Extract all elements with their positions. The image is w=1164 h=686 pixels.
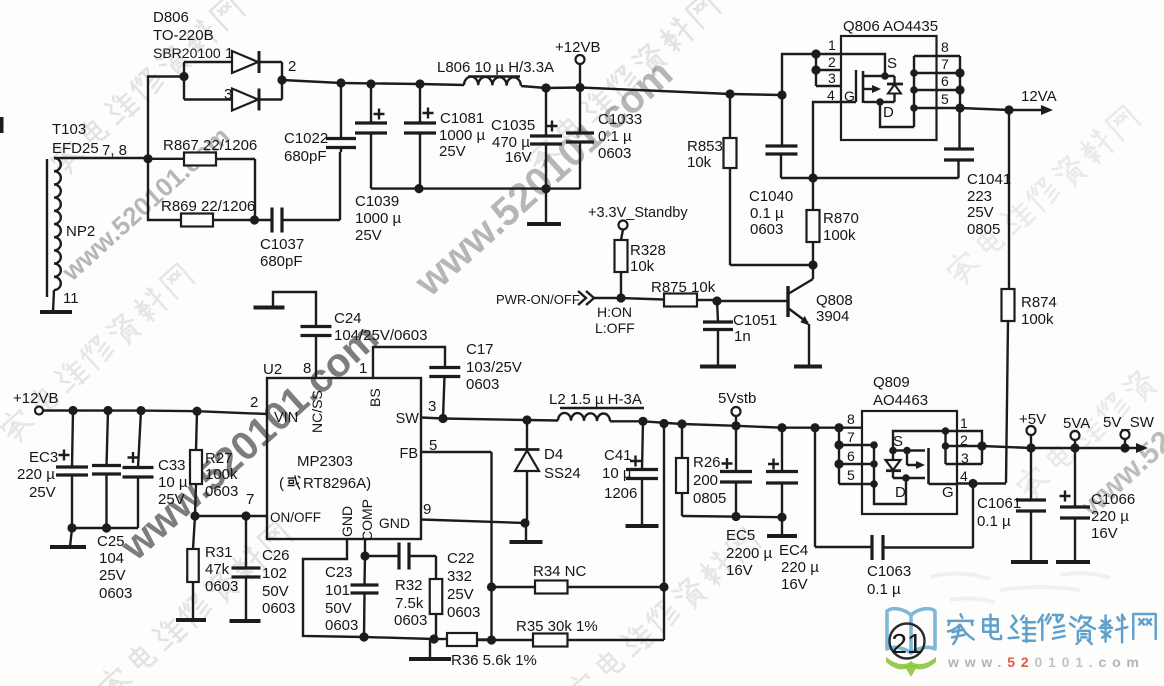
svg-text:0805: 0805: [693, 490, 726, 507]
scan smudges: [930, 573, 1110, 602]
svg-text:1206: 1206: [604, 485, 637, 502]
svg-text:5V_SW: 5V_SW: [1103, 414, 1155, 431]
svg-text:R867 22/1206: R867 22/1206: [163, 137, 257, 154]
svg-text:680pF: 680pF: [260, 253, 303, 270]
svg-text:2: 2: [250, 394, 258, 411]
svg-text:220 µ: 220 µ: [1091, 508, 1129, 525]
wire: winding top to input node: [54, 157, 148, 159]
wire: 12VA output: [960, 108, 1041, 110]
svg-text:25V: 25V: [29, 484, 56, 501]
svg-text:L:OFF: L:OFF: [595, 320, 635, 336]
svg-text:223: 223: [967, 188, 992, 205]
capacitor C41: [638, 417, 647, 426]
transformer T103 core: [46, 159, 48, 297]
svg-text:U2: U2: [263, 361, 282, 378]
logo: blue site name 家电维修资料网: [948, 614, 1156, 644]
svg-text:EC3: EC3: [29, 449, 58, 466]
svg-text:C1040: C1040: [749, 188, 793, 205]
ground (D4 / pin9): [510, 540, 543, 544]
svg-text:0.1 µ: 0.1 µ: [750, 205, 784, 222]
svg-text:10k: 10k: [687, 154, 712, 171]
svg-text:332: 332: [447, 568, 472, 585]
wire: input cap ground rail: [72, 527, 138, 529]
ground (EC rail): [767, 534, 797, 538]
edge artifact: [0, 117, 4, 133]
svg-text:D: D: [895, 484, 906, 501]
svg-text:3904: 3904: [816, 308, 849, 325]
svg-text:R853: R853: [687, 138, 723, 155]
Q806 body diode: [885, 76, 895, 84]
svg-text:7, 8: 7, 8: [102, 142, 127, 159]
svg-text:25V: 25V: [447, 586, 474, 603]
resistor R32: [430, 579, 443, 614]
svg-text:220 µ: 220 µ: [781, 559, 819, 576]
svg-text:C1022: C1022: [284, 130, 328, 147]
capacitor C25: [103, 406, 112, 415]
ground (filter rail): [545, 189, 547, 224]
svg-text:MP2303: MP2303: [297, 453, 353, 470]
Q809 internal source/drain bus: [874, 445, 906, 504]
svg-text:3: 3: [828, 70, 836, 86]
svg-text:(: (: [279, 475, 284, 492]
svg-text:0603: 0603: [262, 600, 295, 617]
ground (C26): [230, 619, 261, 623]
svg-text:R870: R870: [823, 210, 859, 227]
wire: node up to diode split: [148, 77, 184, 159]
svg-text:GND: GND: [379, 515, 410, 531]
capacitor EC4: [777, 423, 786, 432]
svg-text:C22: C22: [447, 550, 475, 567]
resistor R36: [434, 638, 447, 640]
svg-text:50V: 50V: [262, 583, 289, 600]
svg-text:EFD25: EFD25: [52, 140, 99, 157]
resistor R867: [148, 159, 255, 220]
node: snubber input junction: [143, 154, 152, 163]
svg-text:H:ON: H:ON: [597, 304, 632, 320]
svg-text:Q808: Q808: [816, 292, 853, 309]
wire: Q806 left pin bus: [815, 54, 817, 86]
svg-text:1n: 1n: [734, 328, 751, 345]
diode D806-3: [184, 98, 232, 100]
ground (C1051): [700, 365, 736, 369]
svg-text:12VA: 12VA: [1021, 88, 1057, 105]
capacitor C1037: [255, 219, 273, 221]
capacitor C1041: [959, 108, 960, 178]
watermark tiles: [47, 0, 246, 177]
resistor R875: [621, 298, 717, 300]
wire: Q806 gate row: [781, 177, 959, 179]
wire: COMP pin: [364, 539, 366, 556]
svg-text:6: 6: [941, 73, 949, 89]
svg-text:Q809: Q809: [873, 374, 910, 391]
svg-text:50V: 50V: [325, 600, 352, 617]
svg-text:25V: 25V: [158, 491, 185, 508]
svg-text:0603: 0603: [598, 145, 631, 162]
svg-text:4: 4: [960, 468, 968, 484]
inductor L806: [464, 77, 521, 86]
svg-text:0.1 µ: 0.1 µ: [977, 513, 1011, 530]
svg-text:100k: 100k: [823, 227, 856, 244]
svg-text:0603: 0603: [750, 221, 783, 238]
svg-text:0603: 0603: [394, 612, 427, 629]
svg-text:2: 2: [288, 58, 296, 75]
svg-text:7.5k: 7.5k: [395, 595, 424, 612]
capacitor EC5: [731, 421, 740, 430]
svg-text:R31: R31: [205, 544, 233, 561]
svg-text:C1035: C1035: [491, 117, 535, 134]
transistor Q808: [717, 300, 788, 302]
Q806 internal drain bus: [880, 56, 960, 127]
capacitor C1033: [575, 83, 584, 92]
svg-text:1: 1: [960, 415, 968, 431]
svg-text:10 µ: 10 µ: [602, 465, 632, 482]
wire: feed from +12VB bus to Q806 pins 1-3: [777, 90, 786, 99]
resistor R328: [621, 230, 623, 299]
svg-text:0603: 0603: [205, 578, 238, 595]
IC U2 MP2303 box: [267, 378, 421, 539]
svg-text:6: 6: [847, 448, 855, 464]
logo: circled 21: [890, 624, 925, 659]
svg-text:C24: C24: [334, 310, 362, 327]
svg-text:GND: GND: [339, 506, 355, 537]
svg-text:NP2: NP2: [66, 223, 95, 240]
svg-text:0603: 0603: [205, 483, 238, 500]
Q806 right stubs and bus: [914, 56, 960, 108]
ground (T103 pin 11): [40, 310, 72, 314]
svg-text:16V: 16V: [1091, 525, 1118, 542]
wire: Q809 left pin bus: [838, 428, 840, 484]
svg-text:1: 1: [359, 360, 367, 377]
svg-text:C1066: C1066: [1091, 491, 1135, 508]
capacitor C33: [136, 406, 145, 415]
wire: U2 GND pin9 row: [421, 520, 525, 524]
svg-text:+3.3V_Standby: +3.3V_Standby: [588, 205, 688, 221]
svg-text:9: 9: [423, 501, 431, 518]
Q809 body diode: [892, 451, 894, 461]
wire: +12VB to VIN: [44, 411, 268, 415]
svg-text:100k: 100k: [1021, 311, 1054, 328]
svg-text:R328: R328: [630, 242, 666, 259]
svg-text:5VA: 5VA: [1063, 415, 1090, 432]
svg-text:D: D: [883, 104, 894, 121]
node 2 : rectifier output: [281, 62, 283, 100]
svg-text:21: 21: [891, 628, 922, 659]
svg-text:EC4: EC4: [779, 542, 808, 559]
ground (input caps): [70, 528, 72, 547]
svg-text:7: 7: [246, 491, 254, 508]
resistor R870: [812, 178, 814, 265]
capacitor C1081: [415, 79, 424, 88]
svg-text:0.1 µ: 0.1 µ: [867, 581, 901, 598]
svg-text:C1041: C1041: [967, 171, 1011, 188]
svg-text:SBR20100: SBR20100: [153, 45, 221, 61]
svg-text:C1063: C1063: [867, 563, 911, 580]
svg-text:C1081: C1081: [440, 110, 484, 127]
logo: green ribbon: [886, 657, 936, 669]
resistor R35: [487, 635, 496, 644]
svg-text:AO4463: AO4463: [873, 392, 928, 409]
svg-text:1000 µ: 1000 µ: [355, 210, 402, 227]
svg-text:EC5: EC5: [726, 527, 755, 544]
capacitor C26: [245, 516, 247, 621]
svg-text:2200 µ: 2200 µ: [726, 545, 773, 562]
svg-text:100k: 100k: [205, 466, 238, 483]
svg-text:R875 10k: R875 10k: [651, 279, 716, 296]
svg-text:COMP: COMP: [359, 499, 375, 541]
capacitor C1066: [1074, 448, 1076, 562]
wire: GND pin bottom loop: [303, 539, 434, 639]
inductor L2: [558, 413, 610, 421]
svg-text:+12VB: +12VB: [13, 390, 58, 407]
svg-text:25V: 25V: [99, 567, 126, 584]
capacitor C23: [364, 556, 365, 637]
capacitor C24: [273, 292, 316, 378]
logo: book icon: [887, 609, 935, 653]
svg-text:0603: 0603: [99, 585, 132, 602]
svg-text:C17: C17: [466, 341, 494, 358]
svg-text:220 µ: 220 µ: [17, 466, 55, 483]
svg-text:25V: 25V: [355, 227, 382, 244]
resistor R26: [677, 419, 686, 428]
svg-text:C1061: C1061: [977, 495, 1021, 512]
ground (R36 rail): [429, 639, 431, 659]
capacitor EC3: [68, 406, 77, 415]
svg-text:7: 7: [847, 429, 855, 445]
svg-text:R34 NC: R34 NC: [533, 563, 587, 580]
svg-text:C1039: C1039: [355, 193, 399, 210]
wire: +12VB top bus: [282, 80, 464, 85]
resistor R869: [148, 159, 255, 220]
wire: Q809 pins 1-3 output bracket: [957, 431, 982, 464]
ground (C24): [254, 306, 285, 310]
svg-text:C26: C26: [262, 547, 290, 564]
wire: winding bottom to ground: [53, 290, 54, 312]
svg-text:TO-220B: TO-220B: [153, 27, 214, 44]
svg-text:+12VB: +12VB: [555, 39, 600, 56]
svg-text:FB: FB: [399, 446, 418, 462]
svg-text:SW: SW: [396, 411, 420, 427]
capacitor C1039: [366, 79, 375, 88]
svg-text:RT8296A): RT8296A): [303, 475, 371, 492]
svg-text:0603: 0603: [447, 604, 480, 621]
svg-text:1: 1: [828, 37, 836, 53]
wire: Q809 gate pin 4: [957, 482, 1006, 484]
svg-text:0805: 0805: [967, 221, 1000, 238]
svg-text:16V: 16V: [726, 562, 753, 579]
svg-text:R869 22/1206: R869 22/1206: [161, 198, 255, 215]
svg-text:D4: D4: [544, 446, 563, 463]
svg-text:G: G: [942, 484, 954, 501]
diode D806-1: [184, 61, 232, 63]
resistor R31: [193, 516, 195, 620]
svg-text:Q806 AO4435: Q806 AO4435: [843, 18, 938, 35]
capacitor C1063: [810, 423, 819, 432]
svg-text:R35 30k 1%: R35 30k 1%: [516, 618, 598, 635]
capacitor C17 bootstrap: [373, 347, 445, 419]
resistor R853: [725, 89, 734, 98]
svg-text:0.1 µ: 0.1 µ: [598, 128, 632, 145]
svg-text:104: 104: [99, 550, 124, 567]
capacitor C1035: [541, 83, 550, 92]
svg-text:5: 5: [941, 91, 949, 107]
svg-text:10 µ: 10 µ: [158, 474, 188, 491]
svg-text:C25: C25: [97, 533, 125, 550]
svg-text:25V: 25V: [439, 143, 466, 160]
svg-text:101: 101: [325, 582, 350, 599]
svg-text:2: 2: [828, 54, 836, 70]
svg-text:11: 11: [63, 290, 79, 307]
svg-text:4: 4: [827, 87, 835, 103]
svg-text:8: 8: [941, 39, 949, 55]
ground (C1066): [1056, 560, 1090, 564]
svg-text:5: 5: [847, 467, 855, 483]
svg-text:C23: C23: [325, 564, 353, 581]
svg-text:C1051: C1051: [733, 312, 777, 329]
wire: Q806 gate pin 4 lead: [813, 102, 841, 178]
svg-text:www.520101.com: www.520101.com: [947, 654, 1145, 670]
svg-text:C41: C41: [604, 447, 632, 464]
Q809 MOSFET channel: [893, 477, 925, 479]
svg-text:ON/OFF: ON/OFF: [270, 510, 321, 525]
svg-text:R874: R874: [1021, 294, 1057, 311]
svg-text:D806: D806: [153, 9, 189, 26]
svg-text:10k: 10k: [630, 258, 655, 275]
wire: 5Vstb rail: [610, 421, 839, 427]
svg-text:1000 µ: 1000 µ: [439, 127, 486, 144]
svg-text:7: 7: [941, 56, 949, 72]
svg-text:0603: 0603: [466, 376, 499, 393]
capacitor C1051: [717, 301, 718, 366]
ground (Q808 emitter): [794, 365, 822, 369]
diode D4 SS24: [522, 415, 531, 424]
svg-text:0603: 0603: [325, 617, 358, 634]
resistor R874: [1006, 110, 1009, 483]
capacitor C1061: [1030, 448, 1032, 562]
terminal +12VB (top): [579, 64, 581, 88]
ground (C1061): [1011, 560, 1048, 564]
capacitor C22: [365, 555, 399, 557]
MOSFET Q806 AO4435 package: [841, 36, 937, 140]
svg-text:R36 5.6k 1%: R36 5.6k 1%: [451, 652, 537, 669]
svg-text:680pF: 680pF: [284, 148, 327, 165]
svg-text:R27: R27: [205, 450, 233, 467]
svg-text:NC/SS: NC/SS: [309, 390, 325, 433]
svg-text:3: 3: [428, 398, 436, 415]
svg-text:S: S: [887, 55, 897, 72]
svg-text:T103: T103: [52, 121, 86, 138]
svg-text:C1037: C1037: [260, 236, 304, 253]
svg-text:8: 8: [847, 411, 855, 427]
svg-text:L2 1.5 µ H-3A: L2 1.5 µ H-3A: [549, 391, 642, 408]
svg-text:R32: R32: [395, 577, 423, 594]
svg-text:SS24: SS24: [544, 465, 581, 482]
ground (C41): [626, 524, 659, 528]
ground (R31): [176, 618, 206, 622]
resistor R34 NC: [487, 582, 496, 591]
resistor R27: [192, 407, 201, 416]
svg-text:C1033: C1033: [598, 111, 642, 128]
svg-text:L806 10 µ H/3.3A: L806 10 µ H/3.3A: [437, 59, 554, 76]
svg-text:200: 200: [693, 472, 718, 489]
svg-text:8: 8: [303, 360, 311, 377]
svg-text:5Vstb: 5Vstb: [718, 390, 756, 407]
wire: +5V output rail: [957, 446, 1136, 448]
wire: FB row: [421, 452, 492, 640]
wire: filter ground rail: [371, 187, 580, 189]
MOSFET Q809 AO4463 package: [862, 411, 957, 514]
svg-text:PWR-ON/OFF: PWR-ON/OFF: [496, 292, 580, 307]
svg-text:47k: 47k: [205, 561, 230, 578]
svg-text:102: 102: [262, 565, 287, 582]
capacitor C1022: [340, 83, 342, 152]
svg-text:104/25V/0603: 104/25V/0603: [334, 327, 427, 344]
svg-text:103/25V: 103/25V: [466, 359, 522, 376]
wire: diode anode bus vertical: [183, 62, 185, 100]
svg-text:C33: C33: [158, 457, 186, 474]
wire: SW output row: [421, 418, 558, 421]
svg-text:16V: 16V: [505, 149, 532, 166]
svg-text:R26: R26: [693, 454, 721, 471]
svg-text:VIN: VIN: [274, 410, 298, 426]
transformer T103 winding NP2: [54, 158, 61, 290]
svg-text:BS: BS: [367, 388, 383, 407]
wire: EC ground rail: [682, 516, 782, 517]
capacitor C1040: [781, 95, 782, 178]
svg-text:25V: 25V: [967, 204, 994, 221]
wire: pin1 row into S node: [841, 54, 885, 76]
svg-text:16V: 16V: [781, 576, 808, 593]
wire: ON/OFF row: [195, 515, 267, 517]
